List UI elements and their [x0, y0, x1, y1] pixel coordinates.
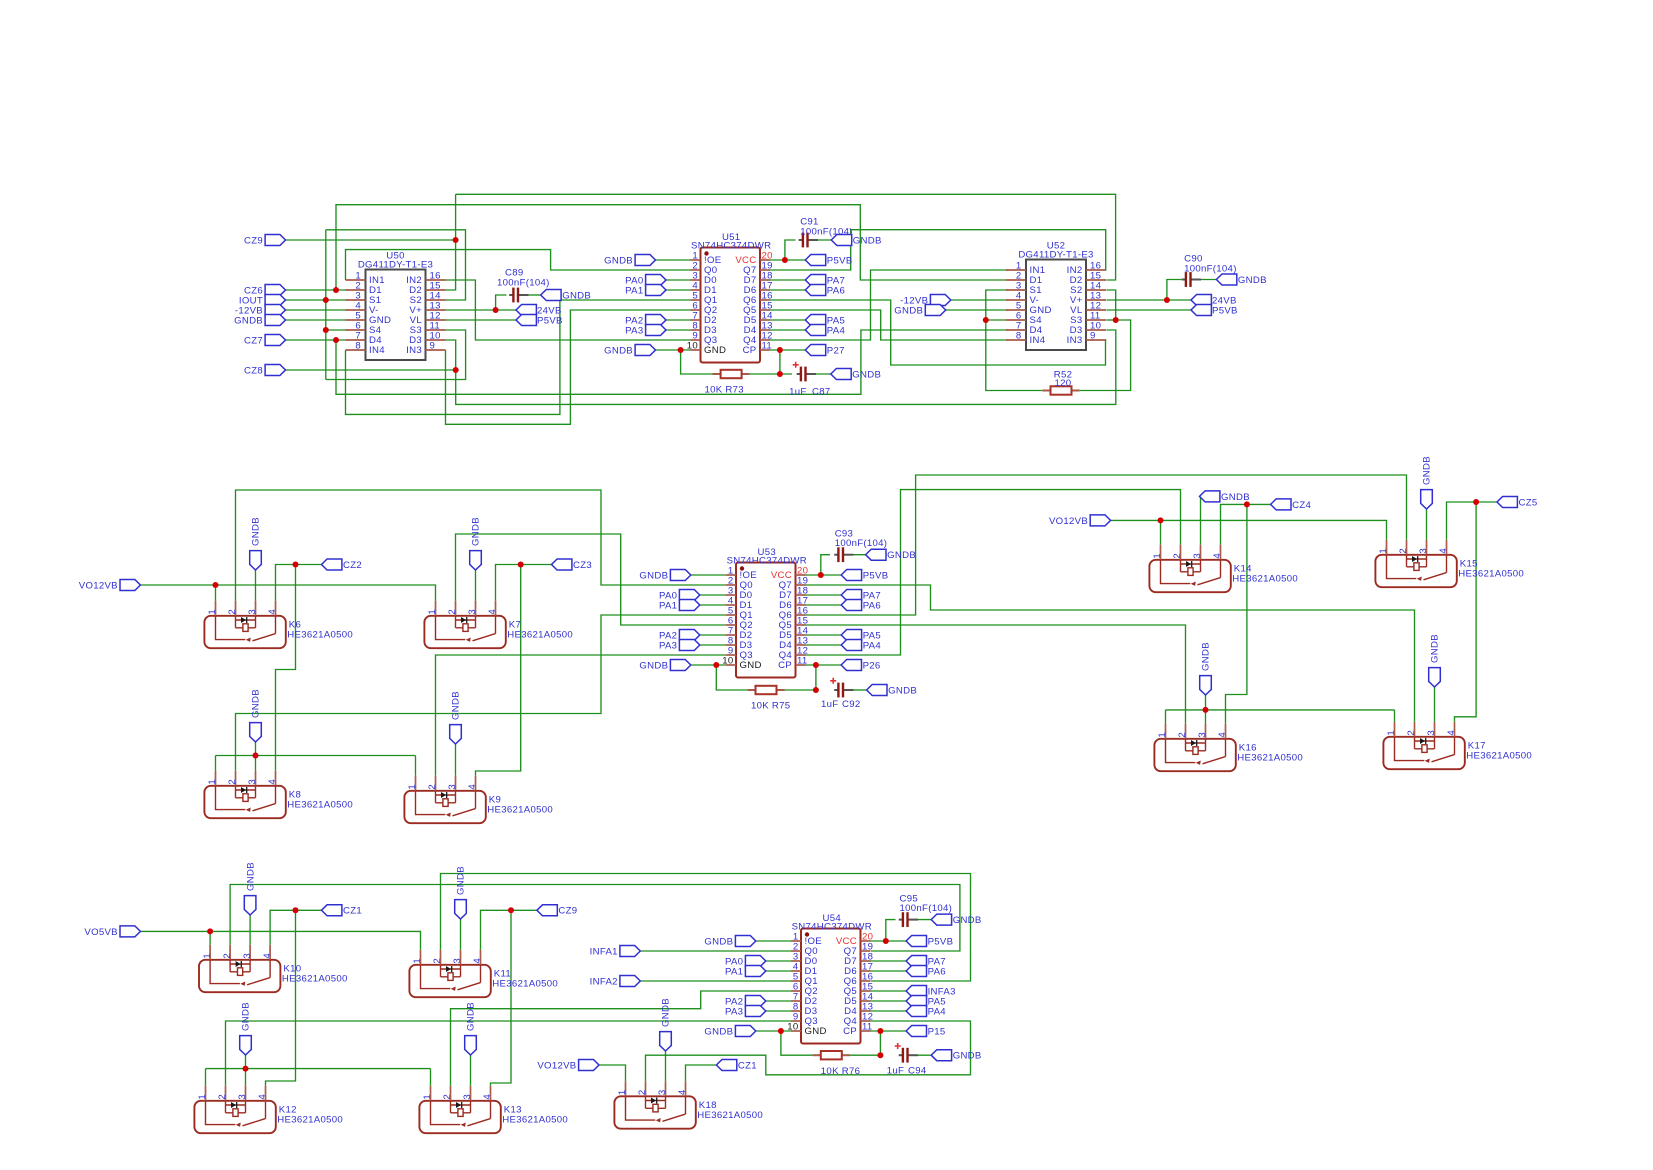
wire U51.VCC to P5VB	[770, 259, 805, 261]
svg-text:3: 3	[452, 958, 463, 964]
svg-text:GNDB: GNDB	[639, 660, 668, 671]
wire GNDB to K14 pin3	[1200, 496, 1202, 544]
svg-text:PA3: PA3	[725, 1006, 743, 1017]
svg-text:P5VB: P5VB	[1212, 305, 1238, 316]
wire GNDB to K13 pin3	[470, 1055, 472, 1086]
wire U51.Q1 to U50.IN4	[346, 300, 691, 414]
port GNDB K7	[470, 551, 482, 570]
svg-text:4: 4	[1446, 730, 1457, 736]
svg-text:GNDB: GNDB	[604, 255, 633, 266]
wire PA1 to U51.D1	[666, 289, 691, 291]
svg-text:SN74HC374DWR: SN74HC374DWR	[792, 922, 872, 933]
port P5VB U51	[805, 255, 825, 266]
port VO12VB mid	[120, 580, 140, 591]
IC U50 DG411DY-T1-E3	[366, 270, 426, 361]
wire U54.Q2 to K13 pin2	[451, 991, 792, 1086]
wire U51.Q2 to U50.IN3	[446, 310, 691, 424]
wire IOUT loop to U50.S2	[326, 230, 466, 300]
svg-text:2: 2	[1406, 730, 1417, 736]
junction GNDB K16	[1203, 707, 1209, 713]
wire U51.D5 to PA5	[770, 319, 805, 321]
wire U54.D4 to PA4	[871, 1010, 907, 1012]
wire U50.V+ to 24VB	[446, 309, 517, 311]
svg-text:1: 1	[422, 1094, 433, 1100]
junction GNDB K8	[253, 753, 259, 759]
relay K15 HE3621A0500	[1375, 555, 1456, 587]
wire GNDB to K15 pin3	[1426, 509, 1428, 540]
svg-text:1uF: 1uF	[821, 699, 838, 710]
wire K12 pin1 riser	[205, 1069, 207, 1086]
wire U54.Q6 to K11 pin2	[441, 874, 971, 982]
wire CZ1 to K12 pin4	[266, 910, 296, 1086]
port P26	[841, 660, 861, 671]
wire U53.D6 to PA6	[806, 604, 842, 606]
capacitor C87 1uF	[793, 362, 816, 382]
svg-text:11: 11	[797, 656, 808, 667]
wire GNDB to K12 pin3	[245, 1055, 247, 1086]
port CZ8	[265, 365, 285, 376]
wire VO5VB to K10 K11 pin1	[140, 931, 420, 949]
capacitor C91 100nF	[799, 233, 818, 248]
wire K14 pin1 riser	[1160, 520, 1162, 544]
wire U50.VL to P5VB	[446, 319, 517, 321]
relay K14 HE3621A0500	[1149, 560, 1230, 592]
port GNDB U54.GND	[735, 1026, 755, 1037]
wire U53.Q2 to K7 pin2	[456, 534, 727, 625]
svg-text:C94: C94	[908, 1066, 927, 1077]
capacitor C95 100nF	[899, 912, 918, 927]
resistor R75 10K	[747, 686, 784, 694]
junction VO5VB K10	[207, 928, 213, 934]
svg-text:IN4: IN4	[1030, 335, 1046, 346]
port GNDB C92	[867, 685, 887, 696]
svg-text:GNDB: GNDB	[1201, 642, 1212, 671]
wire GNDB to U50.GND	[286, 319, 346, 321]
wire CZ9 to U50.D2	[286, 239, 456, 241]
port PA4 U54	[906, 1006, 926, 1017]
wire U54 CP riser	[879, 1031, 881, 1055]
svg-text:P5VB: P5VB	[827, 255, 853, 266]
port P5VB U52	[1191, 305, 1211, 316]
svg-text:4: 4	[482, 1094, 493, 1100]
wire R75 to C92 node	[785, 689, 816, 691]
wire C90 to GNDB	[1200, 279, 1216, 281]
wire -12VB to U50.V-	[286, 309, 346, 311]
svg-text:2: 2	[1398, 548, 1409, 554]
wire U53.CP to P26	[806, 664, 842, 666]
port CZ7	[265, 335, 285, 346]
wire VO12VB to K6 K7 pin1	[140, 585, 435, 601]
relay K11 HE3621A0500	[409, 965, 490, 997]
port PA2 U53	[679, 630, 699, 641]
svg-text:3: 3	[1418, 548, 1429, 554]
wire CP riser	[779, 350, 781, 374]
junction 24VB C90	[1164, 297, 1170, 303]
junction GNDB K12	[243, 1066, 249, 1072]
capacitor C90 100nF	[1182, 272, 1201, 287]
port GNDB K11	[455, 900, 467, 919]
svg-text:GNDB: GNDB	[852, 369, 881, 380]
relay K7 HE3621A0500	[424, 616, 505, 648]
svg-text:10K R73: 10K R73	[705, 385, 744, 396]
svg-text:IN3: IN3	[1067, 335, 1083, 346]
port CZ9 bottom	[537, 905, 557, 916]
wire GNDB to K6 pin3	[255, 570, 257, 601]
wire GNDB to K9 pin3	[455, 744, 457, 776]
port GNDB K15	[1421, 490, 1433, 509]
port GNDB C91	[831, 235, 851, 246]
svg-text:3: 3	[242, 953, 253, 959]
wire GNDB bridge K8 K9	[216, 755, 416, 757]
wire C91 to GNDB	[814, 239, 831, 241]
wire U54.Q4 to K18 pin2	[646, 1021, 971, 1081]
svg-text:GNDB: GNDB	[251, 689, 262, 718]
relay K18 HE3621A0500	[614, 1096, 695, 1128]
port P27	[805, 345, 825, 356]
svg-text:VO5VB: VO5VB	[84, 927, 118, 938]
svg-text:CZ9: CZ9	[558, 906, 577, 917]
port PA1 U53	[679, 600, 699, 611]
port GNDB C90	[1216, 274, 1236, 285]
port INFA3	[906, 986, 926, 997]
wire GNDB to K17 pin3	[1434, 687, 1436, 722]
wire C94 to GNDB	[916, 1054, 932, 1056]
svg-text:GND: GND	[704, 345, 726, 356]
svg-text:HE3621A0500: HE3621A0500	[1232, 574, 1298, 585]
wire U53.Q0 to K6 pin2	[236, 490, 727, 601]
wire IOUT stub S4	[326, 329, 346, 331]
svg-text:C87: C87	[812, 387, 831, 398]
port PA7 U54	[906, 956, 926, 967]
svg-text:3: 3	[1426, 730, 1437, 736]
svg-text:GNDB: GNDB	[245, 862, 256, 891]
svg-text:100nF(104): 100nF(104)	[1184, 264, 1237, 275]
port GNDB C87	[831, 369, 851, 380]
wire PA0 to U54.D0	[766, 960, 791, 962]
svg-text:GNDB: GNDB	[1221, 492, 1250, 503]
port PA1 U54	[745, 966, 765, 977]
wire U52.S2 jog	[1107, 290, 1116, 320]
wire IOUT loop to U50.S3	[326, 330, 466, 380]
svg-text:4: 4	[257, 1094, 268, 1100]
svg-text:100nF(104): 100nF(104)	[497, 278, 550, 289]
port PA2 U51	[646, 315, 666, 326]
svg-text:GNDB: GNDB	[562, 290, 591, 301]
svg-text:1: 1	[1152, 553, 1163, 559]
wire U54.Q3 to K12 pin2	[226, 1021, 792, 1086]
svg-text:CZ9: CZ9	[244, 235, 263, 246]
svg-text:10K R75: 10K R75	[751, 701, 790, 712]
wire U53.Q3 to K9 pin2	[436, 655, 727, 776]
svg-text:VO12VB: VO12VB	[537, 1060, 576, 1071]
port P5VB U54	[906, 936, 926, 947]
svg-text:VO12VB: VO12VB	[79, 580, 118, 591]
port PA5 U51	[805, 315, 825, 326]
svg-text:HE3621A0500: HE3621A0500	[502, 1115, 568, 1126]
junction U51 VCC	[782, 257, 788, 263]
junction VO12VB K6	[213, 582, 219, 588]
svg-text:PA6: PA6	[928, 966, 946, 977]
relay K17 HE3621A0500	[1383, 737, 1464, 769]
svg-text:4: 4	[262, 953, 273, 959]
svg-text:100nF(104): 100nF(104)	[900, 903, 953, 914]
wire CZ6 to U50.D1	[286, 289, 346, 291]
svg-text:PA4: PA4	[928, 1006, 947, 1017]
svg-text:1: 1	[1378, 548, 1389, 554]
junction 24VB C89	[493, 307, 499, 313]
wire PA1 to U53.D1	[700, 604, 726, 606]
wire K13 pin1 riser	[430, 1069, 432, 1086]
svg-text:GND: GND	[740, 660, 762, 671]
svg-text:GNDB: GNDB	[604, 345, 633, 356]
wire INFA2 to U54.Q1	[640, 980, 791, 982]
svg-text:1: 1	[202, 953, 213, 959]
svg-text:GNDB: GNDB	[241, 1002, 252, 1031]
svg-text:HE3621A0500: HE3621A0500	[1237, 753, 1303, 764]
wire CZ2 to K6 pin4	[276, 565, 322, 601]
wire PA0 to U53.D0	[700, 594, 726, 596]
svg-text:DG411DY-T1-E3: DG411DY-T1-E3	[1018, 250, 1093, 261]
svg-text:2: 2	[637, 1089, 648, 1095]
junction U51 CP	[777, 347, 783, 353]
svg-text:3: 3	[237, 1094, 248, 1100]
svg-text:INFA1: INFA1	[590, 946, 618, 957]
wire GNDB to U54.GND	[756, 1030, 791, 1032]
wire CZ4 to K16 pin4	[1226, 504, 1247, 723]
svg-text:CZ1: CZ1	[343, 906, 362, 917]
port GNDB K6	[250, 551, 262, 570]
wire IOUT column	[325, 230, 327, 380]
svg-text:10: 10	[787, 1022, 798, 1033]
svg-text:PA4: PA4	[827, 325, 846, 336]
wire -12VB to U52.V-	[951, 299, 1006, 301]
svg-text:4: 4	[472, 958, 483, 964]
svg-text:4: 4	[487, 609, 498, 615]
svg-text:4: 4	[267, 779, 278, 785]
svg-text:11: 11	[762, 341, 773, 352]
wire U54.D5 to PA5	[871, 1000, 907, 1002]
port VO12VB right	[1090, 515, 1110, 526]
junction CZ9 bottom	[508, 907, 514, 913]
junction U52 S4	[983, 317, 989, 323]
svg-text:GNDB: GNDB	[888, 685, 917, 696]
port GNDB U53.GND	[670, 660, 690, 671]
wire VO12VB to K14 K15 pin1	[1111, 520, 1387, 539]
junction U53 GND	[713, 662, 719, 668]
wire U52.V+ to 24VB	[1107, 299, 1192, 301]
wire CZ3 to K7 pin4	[496, 565, 552, 601]
wire CZ8 line to U52.D3	[456, 330, 1116, 404]
port GNDB K9	[450, 725, 462, 744]
wire GNDB to U53.OE	[691, 574, 726, 576]
port CZ9	[265, 235, 285, 246]
svg-text:CZ4: CZ4	[1292, 500, 1311, 511]
port PA3 U51	[646, 325, 666, 336]
wire U53.D7 to PA7	[806, 594, 842, 596]
svg-text:DG411DY-T1-E3: DG411DY-T1-E3	[358, 260, 433, 271]
wire U53.D5 to PA5	[806, 634, 842, 636]
svg-text:10K R76: 10K R76	[821, 1066, 860, 1077]
svg-text:3: 3	[657, 1089, 668, 1095]
svg-text:IN4: IN4	[369, 345, 385, 356]
svg-text:4: 4	[267, 609, 278, 615]
wire U51.D4 to PA4	[770, 329, 805, 331]
wire R52 to U52.S1 S4	[986, 290, 1043, 391]
wire U52.S3 stub	[1107, 319, 1116, 321]
svg-text:HE3621A0500: HE3621A0500	[1466, 751, 1532, 762]
junction U53 CP	[813, 662, 819, 668]
wire U51.Q5 to U52.IN4	[770, 310, 1006, 340]
svg-text:HE3621A0500: HE3621A0500	[492, 979, 558, 990]
port PA6 U51	[805, 285, 825, 296]
svg-text:CZ3: CZ3	[573, 560, 592, 571]
junction U54 GND	[778, 1028, 784, 1034]
svg-text:GNDB: GNDB	[953, 915, 982, 926]
capacitor C89 100nF	[509, 288, 528, 303]
wire U52.S4 stub	[986, 319, 1006, 321]
svg-text:PA6: PA6	[863, 600, 881, 611]
IC U51 SN74HC374DWR	[701, 248, 761, 363]
wire GNDB to K7 pin3	[475, 570, 477, 601]
port PA3 U53	[679, 640, 699, 651]
port GNDB	[265, 315, 285, 326]
wire CZ9 riser to D2	[446, 194, 456, 290]
port GNDB C93	[866, 549, 886, 560]
svg-text:2: 2	[227, 609, 238, 615]
relay K13 HE3621A0500	[419, 1101, 500, 1133]
junction IOUT S4	[323, 327, 329, 333]
junction CZ1	[293, 907, 299, 913]
capacitor C93 100nF	[834, 547, 853, 562]
svg-text:3: 3	[247, 779, 258, 785]
svg-text:9: 9	[1090, 331, 1096, 342]
svg-text:2: 2	[1172, 553, 1183, 559]
wire GNDB to K10 pin3	[249, 915, 251, 945]
port GNDB K14	[1200, 491, 1220, 502]
wire CZ1 to K18 pin4	[686, 1065, 717, 1081]
svg-text:GNDB: GNDB	[853, 235, 882, 246]
wire GNDB bridge K12 K13	[206, 1068, 431, 1070]
port CZ6	[265, 285, 285, 296]
svg-text:1: 1	[1386, 730, 1397, 736]
svg-text:GNDB: GNDB	[1238, 275, 1267, 286]
wire U51.Q6 to U52.IN3	[770, 300, 1107, 365]
wire U54.D7 to PA7	[871, 960, 907, 962]
junction R75 C92	[813, 687, 819, 693]
IC U53 SN74HC374DWR	[736, 563, 796, 678]
svg-text:2: 2	[222, 953, 233, 959]
port CZ1	[322, 905, 342, 916]
svg-text:GNDB: GNDB	[661, 998, 672, 1027]
junction R76 C94	[877, 1052, 883, 1058]
svg-text:GNDB: GNDB	[1430, 634, 1441, 663]
svg-text:SN74HC374DWR: SN74HC374DWR	[727, 556, 807, 567]
wire VO12VB to K18 pin1	[599, 1065, 626, 1081]
wire CZ8 to U50.D3 junction	[286, 369, 456, 371]
svg-text:CZ7: CZ7	[244, 335, 263, 346]
wire K10 pin1 riser	[209, 931, 211, 944]
svg-text:4: 4	[467, 784, 478, 790]
wire CZ4 to K14 pin4	[1221, 504, 1271, 544]
junction CZ4	[1244, 501, 1250, 507]
IC U52 DG411DY-T1-E3	[1026, 260, 1086, 351]
port PA4 U53	[841, 640, 861, 651]
wire K16 pin1 riser	[1165, 710, 1167, 724]
junction CZ9	[453, 237, 459, 243]
svg-text:HE3621A0500: HE3621A0500	[277, 1115, 343, 1126]
svg-text:P5VB: P5VB	[537, 315, 563, 326]
svg-text:INFA2: INFA2	[590, 976, 618, 987]
port PA0 U51	[646, 275, 666, 286]
wire K17 pin1 riser	[1394, 710, 1396, 722]
port CZ5	[1497, 497, 1517, 508]
wire U51.GND to R73	[681, 350, 713, 374]
svg-text:GNDB: GNDB	[887, 550, 916, 561]
port GNDB U51.OE	[635, 255, 655, 266]
svg-text:PA1: PA1	[625, 285, 643, 296]
svg-text:1: 1	[617, 1089, 628, 1095]
wire C87 to GNDB	[808, 373, 831, 375]
port GNDB U51.GND	[635, 345, 655, 356]
svg-text:P15: P15	[928, 1026, 946, 1037]
port GNDB U54.OE	[735, 936, 755, 947]
port VO5VB	[120, 926, 140, 937]
svg-text:P5VB: P5VB	[863, 570, 889, 581]
junction CZ3	[518, 562, 524, 568]
port GNDB K18	[660, 1032, 672, 1051]
svg-text:1uF: 1uF	[789, 387, 806, 398]
svg-text:2: 2	[447, 609, 458, 615]
wire CZ1 to K10 pin4	[270, 910, 321, 945]
svg-text:CP: CP	[743, 345, 757, 356]
wire IOUT to U50.S1	[286, 299, 346, 301]
port CZ1 K18	[716, 1060, 736, 1071]
wire U54.Q7 to K10 pin2	[230, 885, 960, 952]
wire C93 riser	[821, 555, 830, 575]
port CZ4	[1271, 499, 1291, 510]
port GNDB K12	[240, 1036, 252, 1055]
svg-text:GNDB: GNDB	[234, 315, 263, 326]
port -12VB U52	[930, 295, 950, 306]
svg-text:9: 9	[430, 341, 436, 352]
wire U53.Q4 to K14 pin2	[806, 490, 1181, 655]
svg-text:PA1: PA1	[659, 600, 677, 611]
wire C90 riser	[1167, 280, 1182, 301]
svg-text:HE3621A0500: HE3621A0500	[287, 630, 353, 641]
wire U53.Q1 to K8 pin2	[236, 615, 727, 771]
port GNDB C89	[541, 290, 561, 301]
svg-text:GNDB: GNDB	[639, 570, 668, 581]
port GNDB K17	[1429, 668, 1441, 687]
port PA5 U54	[906, 996, 926, 1007]
wire K9 pin1 riser	[415, 756, 417, 776]
wire CZ7 line to U52.D4	[336, 330, 1006, 394]
svg-text:1: 1	[427, 609, 438, 615]
junction IOUT S1	[323, 297, 329, 303]
junction CZ7	[333, 337, 339, 343]
svg-text:SN74HC374DWR: SN74HC374DWR	[691, 241, 771, 252]
junction VO12VB K14	[1158, 517, 1164, 523]
wire U51.Q0 to U50.IN1	[346, 250, 691, 280]
port GNDB K16	[1200, 676, 1212, 695]
wire U52.S3 to R52	[1080, 320, 1131, 391]
svg-text:HE3621A0500: HE3621A0500	[697, 1110, 763, 1121]
svg-text:4: 4	[677, 1089, 688, 1095]
wire GNDB to K8 pin3	[255, 742, 257, 771]
wire GNDB to K16 pin3	[1205, 695, 1207, 724]
port GNDB K13	[465, 1036, 477, 1055]
svg-text:CP: CP	[778, 660, 792, 671]
